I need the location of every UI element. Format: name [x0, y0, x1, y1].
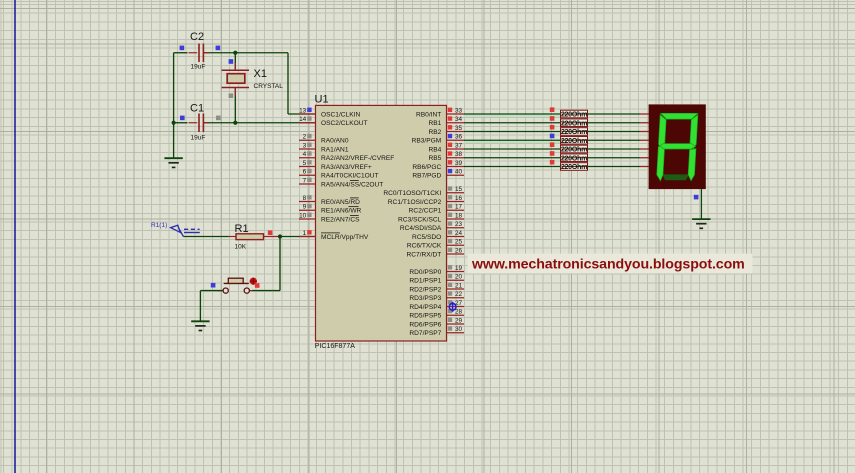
svg-text:R1(1): R1(1) — [151, 222, 167, 229]
logic marker resistor 2 (red) — [550, 116, 555, 121]
resistor 220Ohm #6 — [561, 153, 588, 162]
U1 pin 19 (RD0/PSP0) — [409, 265, 464, 276]
wire resistor 6 to display — [588, 157, 641, 159]
junction node A (X1 top / C2 / OSC1) — [233, 51, 237, 55]
junction node B (X1 bottom / C1 / OSC2) — [233, 121, 237, 125]
logic marker C2 left (blue) — [180, 46, 185, 51]
wire U1 pin 33 to resistor 1 — [464, 113, 561, 115]
svg-text:21: 21 — [455, 282, 463, 289]
resistor 220Ohm #4 — [561, 136, 588, 145]
svg-text:CRYSTAL: CRYSTAL — [254, 83, 284, 90]
svg-text:RA0/AN0: RA0/AN0 — [321, 138, 349, 145]
U1 pin 9 (RE1/AN6/WR) — [299, 204, 362, 215]
svg-text:RA5/AN4/SS/C2OUT: RA5/AN4/SS/C2OUT — [321, 181, 383, 188]
U1 pin 38 (RB5) — [428, 151, 464, 162]
svg-text:2: 2 — [303, 134, 307, 141]
U1 pin 40 (RB7/PGD) — [412, 169, 464, 180]
svg-text:220Ohm: 220Ohm — [561, 153, 587, 162]
svg-text:RC6/TX/CK: RC6/TX/CK — [407, 243, 442, 250]
wire resistor 5 to display — [588, 148, 641, 150]
svg-text:RE2/AN7/CS: RE2/AN7/CS — [321, 216, 360, 223]
svg-text:RC3/SCK/SCL: RC3/SCK/SCL — [398, 216, 442, 223]
svg-text:RC1/T1OSI/CCP2: RC1/T1OSI/CCP2 — [388, 199, 442, 206]
svg-text:20: 20 — [455, 274, 463, 281]
svg-text:39: 39 — [455, 160, 463, 167]
resistor 220Ohm #3 — [561, 127, 588, 136]
wire resistor 1 to display — [588, 113, 641, 115]
logic marker resistor 3 (red) — [550, 125, 555, 130]
U1 pin 18 (RC3/SCK/SCL) — [398, 212, 464, 223]
wire button-left down to ground — [199, 291, 201, 322]
resistor 220Ohm #7 — [561, 162, 588, 171]
wire R1 to U1 pin 1 — [280, 236, 316, 238]
junction node (R1 / pin1 / button) — [278, 234, 282, 238]
wire U1 pin 37 to resistor 5 — [464, 148, 561, 150]
wire U1 pin 34 to resistor 2 — [464, 122, 561, 124]
wire probe to R1 — [183, 236, 228, 238]
wire left rail vertical (C2 down to ground) — [173, 53, 175, 158]
svg-text:U1: U1 — [315, 94, 329, 106]
U1 pin 4 (RA2/AN2/VREF-/CVREF) — [299, 151, 394, 162]
svg-text:38: 38 — [455, 151, 463, 158]
svg-text:RB0/INT: RB0/INT — [416, 111, 441, 118]
svg-text:36: 36 — [455, 134, 463, 141]
svg-text:220Ohm: 220Ohm — [561, 136, 587, 145]
svg-text:28: 28 — [455, 309, 463, 316]
svg-text:15: 15 — [455, 186, 463, 193]
svg-text:220Ohm: 220Ohm — [561, 118, 587, 127]
svg-text:220Ohm: 220Ohm — [561, 127, 587, 136]
logic marker resistor 5 (red) — [550, 142, 555, 147]
svg-text:RB1: RB1 — [428, 120, 441, 127]
push button — [218, 278, 257, 294]
U1 pin 8 (RE0/AN5/RD) — [299, 195, 360, 206]
wire resistor 3 to display — [588, 131, 641, 133]
svg-text:22: 22 — [455, 291, 463, 298]
crystal X1 — [222, 63, 284, 96]
U1 pin 3 (RA1/AN1) — [299, 142, 349, 153]
wire button right — [252, 290, 280, 292]
svg-text:220Ohm: 220Ohm — [561, 110, 587, 119]
wire X1 top lead — [234, 53, 236, 70]
svg-text:40: 40 — [455, 169, 463, 176]
svg-text:RD4/PSP4: RD4/PSP4 — [409, 304, 441, 311]
wire U1 pin 36 to resistor 4 — [464, 139, 561, 141]
svg-text:9: 9 — [303, 204, 307, 211]
svg-text:RB2: RB2 — [428, 129, 441, 136]
svg-text:30: 30 — [455, 326, 463, 333]
svg-text:34: 34 — [455, 116, 463, 123]
wire bend down to pin13 row — [287, 53, 289, 114]
svg-text:C2: C2 — [190, 31, 204, 43]
wire button left — [200, 290, 223, 292]
U1 pin 30 (RD7/PSP7) — [409, 326, 464, 337]
resistor R1 — [229, 223, 281, 251]
svg-text:RA4/T0CKI/C1OUT: RA4/T0CKI/C1OUT — [321, 173, 379, 180]
display pin stub 3 — [640, 131, 649, 133]
svg-text:RB4: RB4 — [428, 146, 441, 153]
logic marker C1 right (grey) — [216, 116, 221, 121]
U1 pin 39 (RB6/PGC) — [412, 160, 464, 171]
svg-text:RC0/T1OSO/T1CKI: RC0/T1OSO/T1CKI — [383, 190, 441, 197]
resistor 220Ohm #2 — [561, 118, 588, 127]
U1 pin 7 (RA5/AN4/SS/C2OUT) — [299, 177, 383, 188]
svg-text:4: 4 — [303, 151, 307, 158]
logic marker X1 top (blue) — [229, 59, 234, 64]
wire resistor 4 to display — [588, 139, 641, 141]
svg-text:18: 18 — [455, 212, 463, 219]
logic marker R1 right (red) — [268, 230, 273, 235]
svg-text:10K: 10K — [235, 243, 247, 250]
svg-text:OSC1/CLKIN: OSC1/CLKIN — [321, 111, 360, 118]
svg-text:RB5: RB5 — [428, 155, 441, 162]
svg-text:10: 10 — [299, 212, 307, 219]
wire C2-right to junction A — [204, 52, 236, 54]
logic marker X1 bottom (grey) — [229, 93, 234, 98]
resistor 220Ohm #5 — [561, 145, 588, 154]
svg-text:RD2/PSP2: RD2/PSP2 — [409, 286, 441, 293]
wire U1 pin 35 to resistor 3 — [464, 131, 561, 133]
U1 pin 36 (RB3/PGM) — [412, 134, 464, 145]
svg-text:RB6/PGC: RB6/PGC — [412, 164, 441, 171]
svg-text:13: 13 — [299, 107, 307, 114]
sheet border (blue) — [14, 0, 16, 473]
ground (display) — [692, 219, 710, 228]
resistor 220Ohm #1 — [561, 110, 588, 119]
voltage probe R1(1) — [151, 222, 200, 237]
display pin stub 5 — [640, 148, 649, 150]
svg-text:RA1/AN1: RA1/AN1 — [321, 146, 349, 153]
U1 pin 10 (RE2/AN7/CS) — [299, 212, 360, 223]
svg-text:RD5/PSP5: RD5/PSP5 — [409, 313, 441, 320]
svg-text:25: 25 — [455, 239, 463, 246]
svg-text:RC4/SDI/SDA: RC4/SDI/SDA — [400, 225, 442, 232]
svg-text:23: 23 — [455, 221, 463, 228]
svg-text:RD3/PSP3: RD3/PSP3 — [409, 295, 441, 302]
U1 pin 14 (OSC2/CLKOUT) — [299, 116, 368, 127]
svg-text:RD6/PSP6: RD6/PSP6 — [409, 321, 441, 328]
logic marker resistor 4 (blue) — [550, 134, 555, 139]
svg-text:RE1/AN6/WR: RE1/AN6/WR — [321, 208, 362, 215]
U1 pin 20 (RD1/PSP1) — [409, 274, 464, 285]
svg-text:RA3/AN3/VREF+: RA3/AN3/VREF+ — [321, 164, 372, 171]
logic marker button right (red) — [255, 283, 260, 288]
logic marker resistor 1 (red) — [550, 107, 555, 112]
svg-text:220Ohm: 220Ohm — [561, 162, 587, 171]
display pin stub 7 — [640, 166, 649, 168]
svg-text:1: 1 — [303, 230, 307, 237]
wire resistor 7 to display — [588, 166, 641, 168]
svg-text:3: 3 — [303, 142, 307, 149]
svg-text:19uF: 19uF — [191, 134, 206, 141]
U1 pin 1 (MCLR/Vpp/THV) — [299, 230, 369, 241]
wire highlight artifacts — [464, 115, 560, 143]
svg-text:www.mechatronicsandyou.blogspo: www.mechatronicsandyou.blogspot.com — [471, 257, 745, 273]
wire junction A to bend — [235, 52, 288, 54]
svg-text:6: 6 — [303, 169, 307, 176]
capacitor C1 — [189, 102, 210, 141]
svg-text:OSC2/CLKOUT: OSC2/CLKOUT — [321, 120, 368, 127]
ground (oscillator) — [164, 158, 182, 167]
svg-text:37: 37 — [455, 142, 463, 149]
svg-text:PIC16F877A: PIC16F877A — [315, 343, 355, 350]
svg-text:8: 8 — [303, 195, 307, 202]
logic marker C2 right (blue) — [216, 46, 221, 51]
wire X1 bottom lead — [234, 88, 236, 123]
svg-text:RC5/SDO: RC5/SDO — [412, 234, 441, 241]
svg-text:RE0/AN5/RD: RE0/AN5/RD — [321, 199, 360, 206]
wire U1 pin 39 to resistor 7 — [464, 166, 561, 168]
U1 pin 23 (RC4/SDI/SDA) — [400, 221, 464, 232]
svg-text:MCLR/Vpp/THV: MCLR/Vpp/THV — [321, 234, 369, 241]
wire junction B to U1 pin 14 — [235, 122, 315, 124]
svg-text:17: 17 — [455, 204, 463, 211]
annotation: blog URL — [468, 254, 753, 274]
U1 pin 37 (RB4) — [428, 142, 464, 153]
logic marker resistor 6 (red) — [550, 151, 555, 156]
svg-text:220Ohm: 220Ohm — [561, 145, 587, 154]
U1 pin 25 (RC6/TX/CK) — [407, 239, 464, 250]
svg-text:RC7/RX/DT: RC7/RX/DT — [406, 251, 441, 258]
display pin stub 4 — [640, 139, 649, 141]
display pin stub 2 — [640, 122, 649, 124]
U1 pin 29 (RD6/PSP6) — [409, 317, 464, 328]
wire display common down — [700, 189, 702, 219]
svg-text:X1: X1 — [254, 68, 267, 80]
svg-text:RD7/PSP7: RD7/PSP7 — [409, 330, 441, 337]
U1 pin 33 (RB0/INT) — [416, 107, 464, 118]
U1 pin 17 (RC2/CCP1) — [409, 204, 464, 215]
U1 pin 6 (RA4/T0CKI/C1OUT) — [299, 169, 379, 180]
ground (button) — [191, 321, 209, 330]
U1 pin 28 (RD5/PSP5) — [409, 309, 464, 320]
capacitor C2 — [189, 31, 210, 70]
svg-text:RB7/PGD: RB7/PGD — [412, 173, 441, 180]
svg-text:C1: C1 — [190, 102, 204, 114]
display pin stub 6 — [640, 157, 649, 159]
svg-text:5: 5 — [303, 160, 307, 167]
svg-text:33: 33 — [455, 107, 463, 114]
svg-text:RD0/PSP0: RD0/PSP0 — [409, 269, 441, 276]
U1 pin 21 (RD2/PSP2) — [409, 282, 464, 293]
wire to U1 pin 13 — [288, 113, 316, 115]
svg-text:RB3/PGM: RB3/PGM — [412, 138, 442, 145]
display pin stub 1 — [640, 113, 649, 115]
U1 pin 22 (RD3/PSP3) — [409, 291, 464, 302]
U1 pin 2 (RA0/AN0) — [299, 134, 349, 145]
svg-text:R1: R1 — [235, 223, 249, 235]
cursor artifact (blue) — [449, 302, 456, 312]
wire U1 pin 38 to resistor 6 — [464, 157, 561, 159]
7-segment display (showing A) — [649, 104, 706, 189]
svg-text:19: 19 — [455, 265, 463, 272]
logic marker C1 left (blue) — [180, 116, 185, 121]
logic marker button left (blue) — [211, 283, 216, 288]
svg-text:35: 35 — [455, 125, 463, 132]
wire resistor 2 to display — [588, 122, 641, 124]
wire C1-right to junction B — [204, 122, 236, 124]
svg-text:RA2/AN2/VREF-/CVREF: RA2/AN2/VREF-/CVREF — [321, 155, 394, 162]
U1 pin 16 (RC1/T1OSI/CCP2) — [388, 195, 464, 206]
U1 pin 34 (RB1) — [428, 116, 464, 127]
svg-text:16: 16 — [455, 195, 463, 202]
microcontroller U1 PIC16F877A body — [315, 94, 447, 351]
U1 pin 13 (OSC1/CLKIN) — [299, 107, 360, 118]
U1 pin 27 (RD4/PSP4) — [409, 300, 464, 311]
svg-text:14: 14 — [299, 116, 307, 123]
logic marker display common (blue) — [694, 195, 699, 200]
svg-text:24: 24 — [455, 230, 463, 237]
wire junction down to button — [279, 237, 281, 291]
U1 pin 35 (RB2) — [428, 125, 464, 136]
U1 pin 5 (RA3/AN3/VREF+) — [299, 160, 372, 171]
junction node on left rail at C1 — [172, 121, 176, 125]
svg-text:26: 26 — [455, 247, 463, 254]
svg-text:7: 7 — [303, 177, 307, 184]
U1 pin 26 (RC7/RX/DT) — [406, 247, 464, 258]
logic marker resistor 7 (red) — [550, 160, 555, 165]
svg-text:29: 29 — [455, 317, 463, 324]
svg-text:RD1/PSP1: RD1/PSP1 — [409, 278, 441, 285]
svg-text:19uF: 19uF — [191, 64, 206, 71]
svg-text:RC2/CCP1: RC2/CCP1 — [409, 208, 442, 215]
U1 pin 15 (RC0/T1OSO/T1CKI) — [383, 186, 464, 197]
wire C1-left to left rail — [174, 122, 188, 124]
U1 pin 24 (RC5/SDO) — [412, 230, 464, 241]
wire C2-left to left rail — [174, 52, 188, 54]
